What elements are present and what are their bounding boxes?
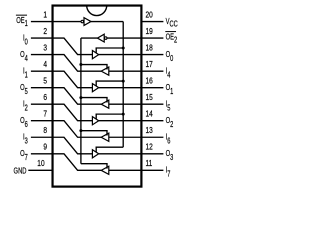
svg-text:2: 2: [170, 121, 173, 129]
svg-text:18: 18: [146, 43, 153, 53]
junction dot OE1 bus tap buffer A3: [122, 80, 125, 83]
svg-text:17: 17: [146, 59, 153, 69]
svg-text:19: 19: [146, 26, 153, 36]
svg-text:5: 5: [25, 88, 28, 96]
svg-text:14: 14: [146, 109, 153, 119]
wire OE2 amp output to enable bus: [81, 37, 98, 39]
pin 20 lead wire (VCC): [141, 21, 163, 23]
wire I6 pin into buffer A6: [109, 136, 142, 138]
svg-text:10: 10: [37, 158, 44, 168]
junction dot OE2 bus tap buffer A4: [79, 96, 82, 99]
svg-text:15: 15: [146, 92, 153, 102]
svg-text:16: 16: [146, 76, 153, 86]
svg-text:1: 1: [25, 20, 28, 28]
svg-text:3: 3: [25, 138, 28, 146]
svg-text:2: 2: [25, 105, 28, 113]
wire buffer A8 output jog to pin (O7): [53, 154, 102, 171]
enable tap OE1 bus to buffer A7: [96, 147, 123, 152]
svg-text:4: 4: [167, 72, 170, 80]
buffer A6 (I6 to O6, left-pointing): [101, 133, 109, 141]
pin-1 orientation notch: [87, 6, 107, 16]
svg-text:OE: OE: [166, 31, 174, 42]
svg-text:9: 9: [43, 142, 47, 152]
pin 11 lead wire (I7): [141, 169, 163, 171]
enable tap OE2 bus to buffer A4: [81, 98, 107, 103]
wire I4 pin into buffer A2: [109, 70, 142, 72]
pin 19 lead wire (OE2): [141, 37, 163, 39]
buffer A3 (I1 to O1, right-pointing): [92, 84, 98, 92]
svg-text:7: 7: [167, 171, 170, 179]
svg-text:4: 4: [25, 55, 28, 63]
pin 17 lead wire (I4): [141, 70, 163, 72]
junction dot OE1 bus tap buffer A5: [122, 113, 125, 116]
svg-text:GND: GND: [14, 167, 27, 176]
svg-text:12: 12: [146, 142, 153, 152]
svg-text:1: 1: [25, 72, 28, 80]
OE1 amp active-low input bubble: [81, 20, 84, 23]
pin 2 lead wire (I0): [31, 37, 53, 39]
pin 18 lead wire (O0): [141, 54, 163, 56]
svg-text:OE: OE: [16, 15, 24, 26]
svg-text:1: 1: [170, 88, 173, 96]
svg-text:13: 13: [146, 125, 153, 135]
svg-text:2: 2: [174, 37, 177, 45]
wire buffer A6 output jog to pin (O6): [53, 121, 102, 138]
pin 14 lead wire (O2): [141, 120, 163, 122]
buffer A8 (I7 to O7, left-pointing): [101, 166, 109, 174]
pin 12 lead wire (O3): [141, 153, 163, 155]
OE1 enable bus (vertical net): [122, 22, 124, 148]
svg-text:5: 5: [43, 76, 47, 86]
pin 7 lead wire (O6): [31, 120, 53, 122]
svg-text:7: 7: [25, 154, 28, 162]
buffer A7 (I3 to O3, right-pointing): [92, 150, 98, 158]
pin 4 lead wire (I1): [31, 70, 53, 72]
enable tap OE1 bus to buffer A1: [96, 48, 123, 53]
pin 10 lead wire (GND): [28, 169, 52, 171]
buffer A2 (I4 to O4, left-pointing): [101, 67, 109, 75]
svg-text:3: 3: [170, 154, 173, 162]
enable tap OE2 bus to buffer A2: [81, 65, 107, 70]
wire buffer A7 output to pin (O3): [99, 153, 142, 155]
wire I2 pin jog into buffer column: [53, 104, 93, 121]
OE2 enable bus (vertical net): [80, 38, 82, 164]
svg-text:2: 2: [43, 26, 47, 36]
wire OE1 amp output to enable bus: [91, 21, 123, 23]
enable tap OE1 bus to buffer A3: [96, 81, 123, 86]
svg-text:4: 4: [43, 59, 47, 69]
pin 9 lead wire (O7): [31, 153, 53, 155]
pin 5 lead wire (O5): [31, 87, 53, 89]
svg-text:20: 20: [146, 10, 153, 20]
buffer A5 (I2 to O2, right-pointing): [92, 117, 98, 125]
svg-text:6: 6: [167, 138, 170, 146]
svg-text:CC: CC: [169, 21, 177, 29]
junction dot OE2 bus tap buffer A2: [79, 63, 82, 66]
wire buffer A1 output to pin (O0): [99, 54, 142, 56]
svg-text:0: 0: [170, 55, 173, 63]
pin 3 lead wire (O4): [31, 54, 53, 56]
junction dot OE2 bus tap buffer A6: [79, 129, 82, 132]
wire pin1 to OE1 amp input: [53, 21, 82, 23]
pin 15 lead wire (I5): [141, 103, 163, 105]
svg-text:5: 5: [167, 105, 170, 113]
wire I7 pin into buffer A8: [109, 169, 142, 171]
enable tap OE1 bus to buffer A5: [96, 114, 123, 119]
pin 8 lead wire (I3): [31, 136, 53, 138]
wire pin19 to OE2 amp input: [107, 37, 141, 39]
wire I0 pin jog into buffer column: [53, 38, 93, 55]
wire buffer A2 output jog to pin (O4): [53, 55, 102, 72]
svg-text:1: 1: [43, 10, 47, 20]
enable tap OE2 bus to buffer A6: [81, 131, 107, 136]
junction dot OE1 bus tap buffer A1: [122, 47, 125, 50]
OE2 enable amplifier (buffer, left-pointing): [97, 34, 104, 42]
wire buffer A5 output to pin (O2): [99, 120, 142, 122]
wire I1 pin jog into buffer column: [53, 71, 93, 88]
svg-text:6: 6: [43, 92, 47, 102]
svg-text:8: 8: [43, 125, 47, 135]
svg-text:3: 3: [43, 43, 47, 53]
svg-text:6: 6: [25, 121, 28, 129]
OE2 amp active-low input bubble: [104, 37, 107, 40]
svg-text:0: 0: [25, 39, 28, 47]
wire buffer A4 output jog to pin (O5): [53, 88, 102, 105]
buffer A4 (I5 to O5, left-pointing): [101, 100, 109, 108]
OE1 enable amplifier (buffer, right-pointing): [84, 18, 91, 26]
IC body outline U1: [53, 6, 142, 187]
pin 16 lead wire (O1): [141, 87, 163, 89]
pin 13 lead wire (I6): [141, 136, 163, 138]
pin 6 lead wire (I2): [31, 103, 53, 105]
wire buffer A3 output to pin (O1): [99, 87, 142, 89]
pin 1 lead wire (OE1): [31, 21, 53, 23]
enable tap OE2 bus to buffer A8: [81, 164, 107, 169]
buffer A1 (I0 to O0, right-pointing): [92, 51, 98, 59]
wire I5 pin into buffer A4: [109, 103, 142, 105]
svg-text:7: 7: [43, 109, 47, 119]
wire I3 pin jog into buffer column: [53, 137, 93, 154]
svg-text:11: 11: [146, 158, 153, 168]
